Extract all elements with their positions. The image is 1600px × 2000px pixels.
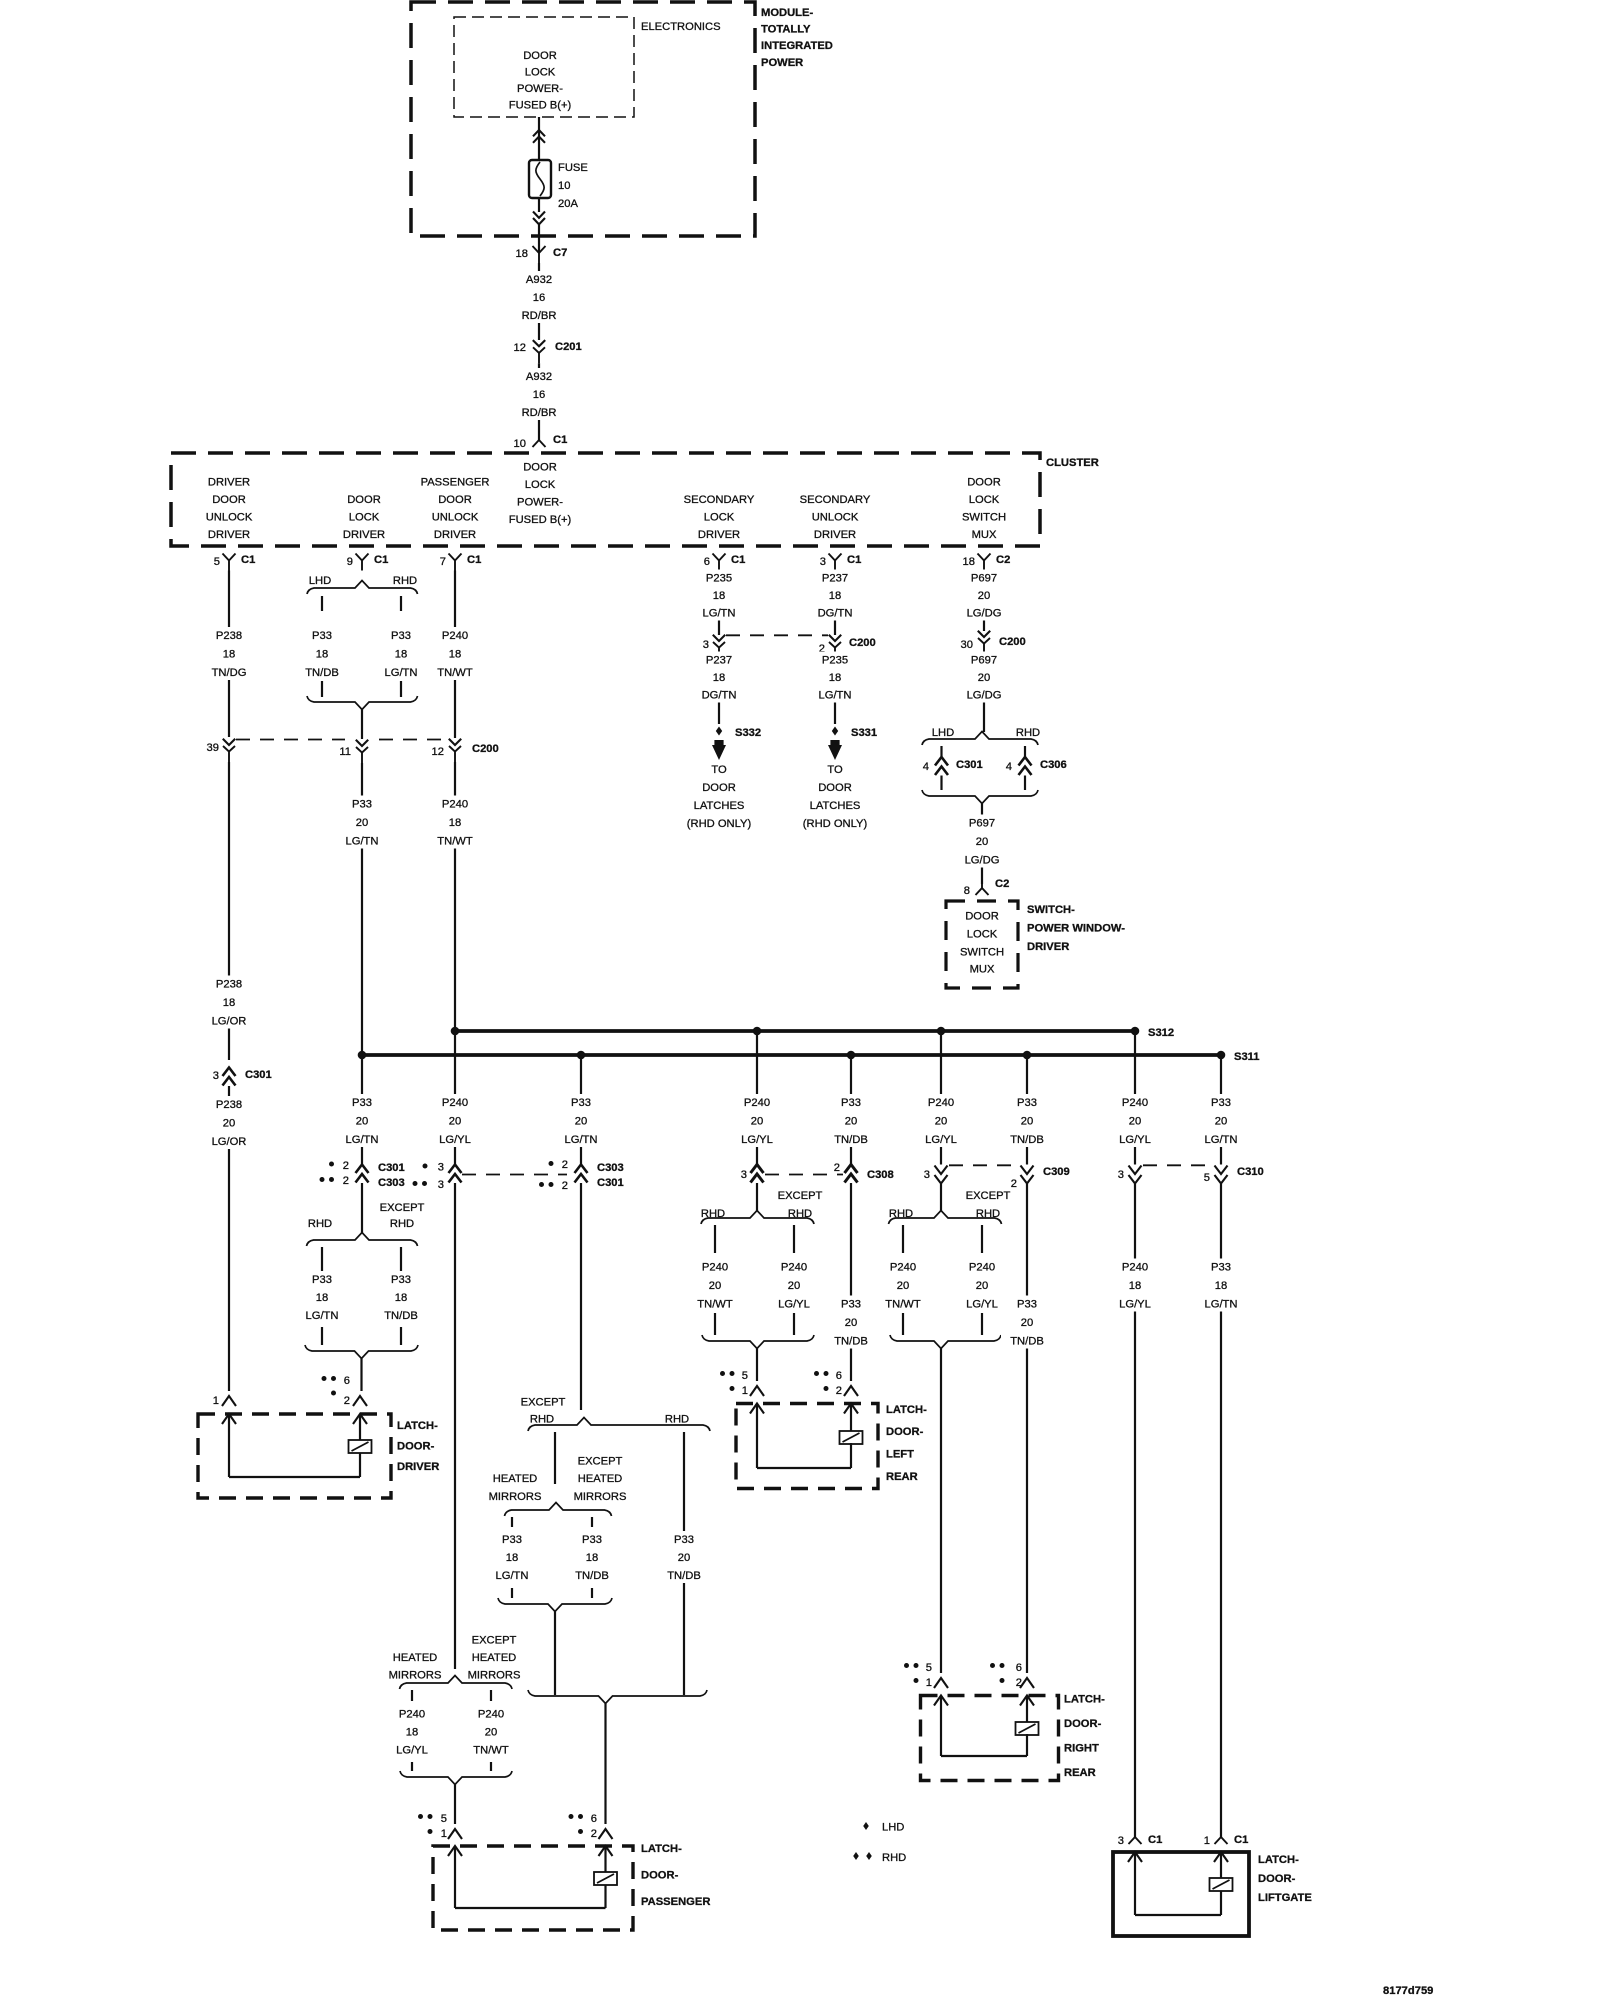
- cluster pin 7 connector C1: [440, 554, 482, 571]
- svg-text:LOCK: LOCK: [967, 929, 998, 941]
- svg-text:LG/TN: LG/TN: [346, 836, 379, 848]
- svg-text:3: 3: [741, 1169, 747, 1181]
- svg-text:18: 18: [449, 649, 461, 661]
- svg-text:LATCHES: LATCHES: [694, 800, 745, 812]
- svg-text:LG/YL: LG/YL: [741, 1134, 773, 1146]
- svg-text:18: 18: [506, 1552, 518, 1564]
- wire LHD branch lower stub: [321, 681, 323, 697]
- wire liftgate pin3 internal: [1134, 1852, 1136, 1915]
- svg-text:P33: P33: [312, 1274, 332, 1286]
- svg-text:LIFTGATE: LIFTGATE: [1258, 1892, 1312, 1904]
- label EXCEPT RHD (left rear): [778, 1190, 823, 1220]
- wire to connector C7: [538, 224, 540, 253]
- svg-text:LG/TN: LG/TN: [703, 608, 736, 620]
- svg-text:LG/YL: LG/YL: [966, 1299, 998, 1311]
- wire right rear internal horizontal: [941, 1755, 1027, 1757]
- node DOOR LOCK DRIVER: [343, 494, 385, 541]
- svg-text:A932: A932: [526, 371, 552, 383]
- svg-text:P240: P240: [744, 1097, 770, 1109]
- svg-text:RD/BR: RD/BR: [522, 310, 557, 322]
- wire liftgate internal horizontal: [1135, 1914, 1221, 1916]
- svg-text:8: 8: [964, 885, 970, 897]
- svg-text:EXCEPT: EXCEPT: [380, 1202, 425, 1214]
- passenger latch pin 1 box chevron: [448, 1846, 462, 1856]
- wire below C306: [1024, 776, 1026, 791]
- svg-text:C1: C1: [731, 554, 745, 566]
- svg-text:P33: P33: [1211, 1097, 1231, 1109]
- svg-text:DOOR-: DOOR-: [1064, 1718, 1102, 1730]
- svg-text:20: 20: [485, 1727, 497, 1739]
- svg-text:DOOR: DOOR: [523, 462, 557, 474]
- svg-text:TO: TO: [827, 764, 843, 776]
- node DOOR LOCK SWITCH MUX (cluster): [962, 477, 1006, 542]
- wire LHD branch to C301: [940, 746, 942, 757]
- wire left rear pin2 internal lower: [850, 1443, 852, 1468]
- svg-text:DRIVER: DRIVER: [1027, 941, 1069, 953]
- internal connector chevrons below fuse: [533, 212, 545, 225]
- svg-text:11: 11: [339, 746, 351, 758]
- svg-text:S311: S311: [1234, 1051, 1260, 1063]
- svg-text:RHD: RHD: [530, 1414, 554, 1426]
- wire heated branch stub: [511, 1517, 513, 1527]
- svg-text:LG/OR: LG/OR: [212, 1136, 247, 1148]
- node DOOR LOCK SWITCH MUX (switch box): [960, 911, 1004, 976]
- merge brace (x455 group): [400, 1771, 512, 1785]
- connector C200 pin 2 (in-line): [819, 635, 876, 658]
- svg-text:EXCEPT: EXCEPT: [578, 1456, 623, 1468]
- wire label P33 20 TN/DB (right rear pin 2): [1001, 1296, 1053, 1349]
- svg-text:DRIVER: DRIVER: [814, 529, 856, 541]
- svg-text:20: 20: [709, 1280, 721, 1292]
- svg-text:P33: P33: [391, 630, 411, 642]
- svg-text:SWITCH: SWITCH: [962, 512, 1006, 524]
- connector C200 pin 12 (in-line): [432, 739, 499, 762]
- wire S312 to C309 connector x941: [940, 1031, 942, 1165]
- svg-text:TN/DB: TN/DB: [834, 1134, 868, 1146]
- svg-text:C7: C7: [553, 247, 567, 259]
- svg-text:DOOR: DOOR: [702, 782, 736, 794]
- svg-text:2: 2: [344, 1395, 350, 1407]
- svg-text:HEATED: HEATED: [393, 1652, 438, 1664]
- svg-text:3: 3: [213, 1070, 219, 1082]
- svg-text:LATCHES: LATCHES: [810, 800, 861, 812]
- svg-text:HEATED: HEATED: [493, 1473, 538, 1485]
- svg-text:P240: P240: [442, 1097, 468, 1109]
- node SECONDARY LOCK DRIVER: [684, 494, 755, 541]
- svg-text:TN/DB: TN/DB: [575, 1570, 609, 1582]
- RHD / EXCEPT RHD split brace (driver): [307, 1233, 418, 1247]
- svg-text:P33: P33: [502, 1534, 522, 1546]
- RHD / EXCEPT RHD split brace (right rear): [889, 1211, 1002, 1225]
- svg-text:2: 2: [343, 1175, 349, 1187]
- svg-text:39: 39: [207, 742, 219, 754]
- svg-text:LOCK: LOCK: [525, 479, 556, 491]
- connector C303/C301 pin 3 (in-line, x455): [413, 1162, 462, 1192]
- wire driver latch pin2 internal upper: [359, 1414, 361, 1441]
- svg-text:DOOR-: DOOR-: [886, 1426, 924, 1438]
- svg-text:LG/YL: LG/YL: [396, 1745, 428, 1757]
- wire passenger latch pin2 internal lower: [604, 1885, 606, 1908]
- svg-text:EXCEPT: EXCEPT: [521, 1397, 566, 1409]
- svg-text:P697: P697: [971, 655, 997, 667]
- svg-text:C200: C200: [999, 636, 1026, 648]
- motor latch-door-passenger: [594, 1872, 617, 1885]
- left rear latch pin 2 connector: [814, 1370, 858, 1397]
- off-page arrow to door latches (S332): [712, 740, 726, 760]
- svg-text:DRIVER: DRIVER: [208, 529, 250, 541]
- liftgate connector C1 pin 3: [1118, 1828, 1163, 1847]
- wire label P240 20 LG/YL (right rear except RHD): [956, 1259, 1008, 1312]
- connector C201 pin 12 (in-line): [533, 340, 545, 346]
- merge brace (driver latch pin 2 feed): [305, 1345, 418, 1359]
- svg-text:LG/DG: LG/DG: [965, 855, 1000, 867]
- svg-text:18: 18: [406, 1727, 418, 1739]
- svg-text:DOOR: DOOR: [965, 911, 999, 923]
- svg-text:DRIVER: DRIVER: [208, 477, 250, 489]
- svg-text:RHD: RHD: [788, 1208, 812, 1220]
- wire label P33 20 LG/TN: [336, 796, 388, 849]
- svg-text:P240: P240: [1122, 1262, 1148, 1274]
- svg-text:16: 16: [533, 389, 545, 401]
- svg-text:TN/WT: TN/WT: [885, 1299, 921, 1311]
- svg-text:20A: 20A: [558, 198, 578, 210]
- svg-text:12: 12: [514, 342, 526, 354]
- wire label P237 18 DG/TN: [693, 652, 745, 703]
- wire merge to passenger latch pin 1: [454, 1785, 456, 1825]
- connector C301 pin 4 (in-line): [923, 757, 983, 775]
- svg-text:18: 18: [829, 672, 841, 684]
- node DOOR LOCK POWER-FUSED B(+) (module internal): [509, 50, 572, 112]
- junction S312 x1135: [1131, 1027, 1140, 1036]
- svg-text:3: 3: [924, 1169, 930, 1181]
- wire S311 to C301/C303 connector x362: [361, 1055, 363, 1165]
- svg-text:HEATED: HEATED: [472, 1652, 517, 1664]
- fuse value label FUSE 10 20A: [558, 162, 588, 210]
- svg-text:P33: P33: [1211, 1262, 1231, 1274]
- merge brace to door lock driver wire: [307, 696, 418, 710]
- svg-text:SWITCH: SWITCH: [960, 947, 1004, 959]
- svg-text:P33: P33: [841, 1097, 861, 1109]
- right rear latch pin 1 connector: [904, 1662, 948, 1689]
- svg-text:HEATED: HEATED: [578, 1473, 623, 1485]
- wire from electronics box to fuse: [538, 117, 540, 161]
- svg-text:20: 20: [1021, 1116, 1033, 1128]
- wire RHD branch to C306: [1024, 746, 1026, 757]
- svg-text:DRIVER: DRIVER: [397, 1461, 439, 1473]
- connector C200 pin 30 (in-line): [961, 631, 1026, 654]
- svg-text:LOCK: LOCK: [969, 494, 1000, 506]
- svg-text:LG/TN: LG/TN: [819, 690, 852, 702]
- junction S311 x1027: [1023, 1051, 1032, 1060]
- svg-text:4: 4: [1006, 761, 1012, 773]
- node PASSENGER DOOR UNLOCK DRIVER: [421, 477, 490, 542]
- wire label P238 18 TN/DG: [203, 627, 255, 680]
- svg-text:P237: P237: [706, 655, 732, 667]
- svg-text:MODULE-: MODULE-: [761, 7, 813, 19]
- label TO DOOR LATCHES (RHD ONLY) right: [803, 764, 868, 830]
- motor latch-door-right-rear: [1016, 1722, 1039, 1735]
- wire fuse to module edge: [538, 198, 540, 212]
- svg-text:3: 3: [703, 639, 709, 651]
- wire S312 to C308 connector x757: [756, 1031, 758, 1165]
- wire label P33 20 TN/DB (left rear pin 2): [825, 1296, 877, 1349]
- svg-text:DRIVER: DRIVER: [343, 529, 385, 541]
- svg-text:3: 3: [820, 556, 826, 568]
- svg-text:7: 7: [440, 556, 446, 568]
- connector C200 pin 11 (in-line): [356, 740, 368, 746]
- svg-text:3: 3: [438, 1179, 444, 1191]
- wire S311 to connector x581: [580, 1055, 582, 1165]
- wire label P33 18 LG/TN (liftgate): [1195, 1259, 1247, 1312]
- svg-text:C301: C301: [378, 1162, 405, 1174]
- right rear latch pin 1 box chevron: [934, 1696, 948, 1706]
- svg-text:18: 18: [963, 556, 975, 568]
- svg-text:P240: P240: [1122, 1097, 1148, 1109]
- wire label P238 18 LG/OR: [203, 976, 255, 1029]
- svg-text:DOOR-: DOOR-: [397, 1441, 435, 1453]
- cluster pin 3 connector C1: [820, 554, 862, 571]
- svg-text:POWER: POWER: [761, 57, 803, 69]
- wire S311 to C310 connector x1221: [1220, 1055, 1222, 1165]
- svg-text:C309: C309: [1043, 1166, 1070, 1178]
- wire label P33 20 TN/DB x851: [825, 1094, 877, 1147]
- junction S311 x1221: [1217, 1051, 1226, 1060]
- svg-text:P235: P235: [706, 573, 732, 585]
- module TIPM outer dashed box - MODULE-TOTALLY INTEGRATED POWER: [411, 2, 755, 236]
- wire label P33 20 LG/TN x362: [336, 1094, 388, 1147]
- wire x455 down to heated mirrors split: [454, 1183, 456, 1669]
- svg-text:LG/YL: LG/YL: [778, 1299, 810, 1311]
- wire label P33 18 LG/TN (driver RHD): [296, 1271, 348, 1323]
- svg-text:2: 2: [591, 1828, 597, 1840]
- svg-text:LATCH-: LATCH-: [1258, 1854, 1299, 1866]
- wire x941 to RHD split (right rear): [940, 1184, 942, 1211]
- svg-text:C303: C303: [597, 1162, 624, 1174]
- wire label P240 20 LG/YL x1135: [1109, 1094, 1161, 1147]
- cluster dashed box: [171, 453, 1040, 546]
- label EXCEPT RHD (right rear): [966, 1190, 1011, 1220]
- svg-text:DOOR-: DOOR-: [641, 1870, 679, 1882]
- svg-text:P240: P240: [928, 1097, 954, 1109]
- label TO DOOR LATCHES (RHD ONLY) left: [687, 764, 752, 830]
- wire passenger latch internal horizontal: [455, 1907, 606, 1909]
- wire liftgate pin1 internal upper: [1220, 1852, 1222, 1879]
- svg-text:20: 20: [788, 1280, 800, 1292]
- svg-text:18: 18: [223, 997, 235, 1009]
- svg-text:C308: C308: [867, 1169, 894, 1181]
- svg-text:20: 20: [976, 836, 988, 848]
- svg-text:A932: A932: [526, 274, 552, 286]
- wire label P237 18 DG/TN: [809, 570, 861, 621]
- svg-text:20: 20: [223, 1118, 235, 1130]
- svg-text:18: 18: [586, 1552, 598, 1564]
- wire x851 to left rear latch pin 2: [850, 1183, 852, 1381]
- svg-text:C201: C201: [555, 341, 582, 353]
- connector C2 pin 8 into switch: [964, 878, 1010, 897]
- svg-text:5: 5: [441, 1813, 447, 1825]
- svg-text:1: 1: [742, 1385, 748, 1397]
- svg-text:CLUSTER: CLUSTER: [1046, 457, 1099, 469]
- svg-text:P240: P240: [969, 1262, 995, 1274]
- wire except RHD lower stub (right rear): [981, 1313, 983, 1335]
- svg-text:TN/DB: TN/DB: [384, 1310, 418, 1322]
- svg-text:P33: P33: [352, 1097, 372, 1109]
- module label MODULE-TOTALLY INTEGRATED POWER: [761, 7, 833, 69]
- svg-text:LATCH-: LATCH-: [886, 1404, 927, 1416]
- cluster pin 6 connector C1: [704, 554, 746, 571]
- svg-text:TN/DB: TN/DB: [834, 1336, 868, 1348]
- svg-text:C2: C2: [995, 878, 1009, 890]
- wire except RHD branch stub (left rear): [793, 1225, 795, 1253]
- svg-text:MUX: MUX: [970, 964, 995, 976]
- wire P697 20 LG/DG: [983, 571, 985, 632]
- label LATCH-DOOR-RIGHT REAR: [1064, 1694, 1105, 1780]
- label EXCEPT HEATED MIRRORS (x581 group): [574, 1456, 627, 1504]
- LHD/RHD split brace under cluster pin 9: [307, 581, 418, 595]
- connector C301 pin 3 (in-line): [213, 1068, 272, 1086]
- svg-text:REAR: REAR: [886, 1471, 918, 1483]
- svg-text:RHD: RHD: [308, 1218, 332, 1230]
- passenger latch pin 2 connector: [569, 1813, 613, 1840]
- label LATCH-DOOR-LIFTGATE: [1258, 1854, 1312, 1904]
- wire label P240 20 TN/WT (left rear RHD): [689, 1259, 741, 1312]
- wire except heated branch stub: [591, 1517, 593, 1527]
- svg-text:(RHD ONLY): (RHD ONLY): [687, 818, 752, 830]
- svg-text:LG/YL: LG/YL: [925, 1134, 957, 1146]
- driver latch pin 1 box chevron: [222, 1414, 236, 1424]
- wire except heated branch stub (x455): [490, 1690, 492, 1701]
- wire x362 to RHD split: [361, 1183, 363, 1233]
- svg-text:TO: TO: [711, 764, 727, 776]
- wire label P33 18 LG/TN: [375, 627, 427, 680]
- wire label P33 18 TN/DB (driver except RHD): [375, 1271, 427, 1323]
- wire RHD lower stub (right rear): [902, 1313, 904, 1335]
- svg-text:LG/TN: LG/TN: [385, 667, 418, 679]
- dashed link C200 pins 3-2: [726, 634, 828, 636]
- wire label P240 20 LG/YL x757: [731, 1094, 783, 1147]
- svg-text:PASSENGER: PASSENGER: [421, 477, 490, 489]
- wire P235 18 LG/TN: [718, 571, 720, 636]
- heated mirrors split brace (x581 group): [505, 1503, 612, 1517]
- liftgate pin 1 box chevron: [1214, 1852, 1228, 1862]
- svg-text:SECONDARY: SECONDARY: [684, 494, 755, 506]
- connector C1 pin 10 into cluster: [533, 431, 546, 447]
- wire driver latch pin2 internal lower: [359, 1453, 361, 1477]
- svg-text:SWITCH-: SWITCH-: [1027, 904, 1075, 916]
- wire A932 16 RD/BR upper segment: [538, 263, 540, 340]
- svg-text:POWER-: POWER-: [517, 497, 563, 509]
- svg-text:UNLOCK: UNLOCK: [432, 512, 479, 524]
- svg-text:P697: P697: [971, 573, 997, 585]
- svg-text:P238: P238: [216, 1099, 242, 1111]
- splice S331: [832, 727, 877, 740]
- LHD/RHD split brace switch mux: [922, 732, 1038, 746]
- node DOOR LOCK POWER-FUSED B(+) (cluster): [509, 462, 572, 527]
- wire A932 16 RD/BR lower segment: [538, 363, 540, 440]
- merge brace (x581 group): [498, 1598, 612, 1612]
- legend RHD marker: [853, 1852, 906, 1864]
- connector C301/C303 pin 2 (in-line, x362): [320, 1160, 405, 1189]
- svg-text:S331: S331: [851, 727, 877, 739]
- wire S312 to connector x455: [454, 1031, 456, 1165]
- wire label P33 18 LG/TN (heated): [486, 1531, 538, 1583]
- wire label P33 18 TN/DB (except heated): [566, 1531, 618, 1583]
- svg-text:30: 30: [961, 639, 973, 651]
- wire label A932 16 RD/BR: [513, 271, 565, 323]
- wire label P697 20 LG/DG lower: [956, 815, 1008, 868]
- svg-text:20: 20: [978, 672, 990, 684]
- svg-text:TN/WT: TN/WT: [697, 1299, 733, 1311]
- svg-text:C1: C1: [1234, 1834, 1248, 1846]
- wire label P240 20 LG/YL (left rear except RHD): [768, 1259, 820, 1312]
- svg-text:20: 20: [935, 1116, 947, 1128]
- svg-text:RHD: RHD: [889, 1208, 913, 1220]
- svg-text:C301: C301: [597, 1177, 624, 1189]
- wire label P33 18 TN/DB: [296, 627, 348, 680]
- latch-door-passenger dashed box: [433, 1846, 633, 1930]
- svg-text:DOOR: DOOR: [438, 494, 472, 506]
- motor latch-door-driver: [349, 1440, 372, 1453]
- svg-text:MIRRORS: MIRRORS: [468, 1670, 521, 1682]
- switch dashed box DOOR LOCK SWITCH MUX: [946, 901, 1018, 988]
- svg-text:C303: C303: [378, 1177, 405, 1189]
- svg-text:LG/TN: LG/TN: [496, 1570, 529, 1582]
- left rear latch pin 2 box chevron: [844, 1404, 858, 1414]
- svg-text:LG/TN: LG/TN: [1205, 1134, 1238, 1146]
- svg-text:5: 5: [742, 1370, 748, 1382]
- liftgate connector C1 pin 1: [1204, 1828, 1249, 1847]
- svg-text:LHD: LHD: [882, 1822, 904, 1834]
- svg-text:LG/TN: LG/TN: [565, 1134, 598, 1146]
- wire label A932 16 RD/BR: [513, 368, 565, 420]
- wire S311 to C308 connector x851: [850, 1055, 852, 1165]
- wire label P33 20 LG/TN x581: [555, 1094, 607, 1147]
- svg-text:P697: P697: [969, 818, 995, 830]
- wire S312 to C310 connector x1135: [1134, 1031, 1136, 1165]
- svg-text:10: 10: [558, 180, 570, 192]
- junction S312 x455: [451, 1027, 460, 1036]
- latch-door-driver dashed box: [198, 1414, 391, 1498]
- wire left rear pin1 internal: [756, 1404, 758, 1469]
- wire P235 18 LG/TN (unlock): [834, 658, 836, 724]
- driver latch pin 2 box chevron: [353, 1414, 367, 1424]
- svg-text:MIRRORS: MIRRORS: [389, 1670, 442, 1682]
- wire label P240 20 TN/WT (right rear RHD): [877, 1259, 929, 1312]
- svg-text:EXCEPT: EXCEPT: [472, 1635, 517, 1647]
- wire label P240 20 LG/YL x941: [915, 1094, 967, 1147]
- latch-door-left-rear dashed box: [736, 1404, 878, 1489]
- wire big merge to passenger latch pin 2: [604, 1704, 606, 1825]
- driver latch pin 2 connector: [322, 1375, 368, 1407]
- wire label P697 20 LG/DG middle: [958, 652, 1010, 703]
- legend LHD marker: [863, 1822, 904, 1834]
- left rear latch pin 1 connector: [720, 1370, 764, 1397]
- svg-text:DOOR: DOOR: [967, 477, 1001, 489]
- svg-text:20: 20: [678, 1552, 690, 1564]
- svg-text:5: 5: [926, 1662, 932, 1674]
- svg-text:3: 3: [438, 1162, 444, 1174]
- svg-text:P33: P33: [312, 630, 332, 642]
- svg-text:EXCEPT: EXCEPT: [778, 1190, 823, 1202]
- svg-text:DG/TN: DG/TN: [818, 608, 853, 620]
- electronics inner dashed box: [454, 17, 634, 117]
- splice S332: [716, 727, 761, 740]
- wire x581 to EXCEPT RHD split: [580, 1183, 582, 1410]
- svg-text:20: 20: [356, 1116, 368, 1128]
- svg-text:S312: S312: [1148, 1027, 1174, 1039]
- svg-text:2: 2: [343, 1160, 349, 1172]
- svg-text:LG/DG: LG/DG: [967, 608, 1002, 620]
